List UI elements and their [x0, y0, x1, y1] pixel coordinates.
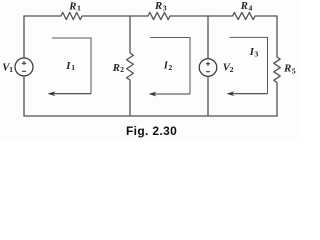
svg-text:1: 1: [71, 63, 75, 72]
svg-text:Fig. 2.30: Fig. 2.30: [126, 124, 177, 138]
svg-text:R: R: [154, 0, 162, 12]
svg-text:4: 4: [249, 3, 253, 12]
svg-text:3: 3: [254, 49, 258, 58]
svg-text:5: 5: [292, 66, 296, 75]
svg-text:R: R: [112, 62, 120, 74]
svg-text:2: 2: [120, 65, 124, 74]
svg-text:1: 1: [77, 4, 81, 13]
svg-text:2: 2: [230, 65, 234, 74]
svg-text:R: R: [283, 63, 291, 75]
svg-text:3: 3: [163, 3, 167, 12]
svg-text:R: R: [68, 0, 76, 12]
svg-text:2: 2: [168, 63, 172, 72]
svg-text:R: R: [240, 0, 248, 12]
svg-text:1: 1: [9, 65, 13, 74]
